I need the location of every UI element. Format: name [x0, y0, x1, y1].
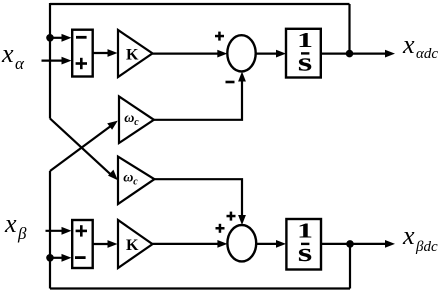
- svg-text:x: x: [1, 39, 14, 68]
- label: output x_beta_dc: [402, 221, 438, 255]
- wire: arrow from top-left node into summing block minus input: [50, 34, 72, 42]
- gain W1 (top omega_c triangle): [119, 96, 154, 143]
- label: minus sign at S1 bottom input: [226, 81, 235, 84]
- svg-text:K: K: [126, 46, 139, 63]
- wire: SB2 output to gain K2: [93, 240, 118, 248]
- wire: top feedback left vertical: [49, 3, 51, 119]
- label: minus sign in SB2: [75, 256, 86, 259]
- wire: W2 output to S2 top (plus input): [154, 179, 246, 225]
- summing block SB1 (top comparator rectangle): [72, 30, 93, 77]
- wire: SB1 output to gain K1: [93, 49, 118, 57]
- wire: bottom feedback horizontal: [50, 287, 350, 289]
- svg-text:x: x: [4, 209, 17, 238]
- svg-text:βdc: βdc: [415, 239, 438, 255]
- svg-text:c: c: [133, 177, 138, 188]
- node: junction dot top-left: [46, 34, 54, 42]
- label: output x_alpha_dc: [402, 30, 438, 62]
- svg-text:ω: ω: [124, 111, 134, 126]
- summing circle S1 (top): [227, 35, 255, 71]
- label: plus sign at S2 top input: [227, 212, 236, 221]
- summing circle S2 (bottom): [227, 225, 256, 261]
- wire: K1 output to summing circle S1, with plus label: [153, 50, 228, 58]
- label: input x_beta: [4, 209, 27, 243]
- wire: x_beta input arrow: [46, 227, 72, 235]
- label: plus sign in SB1: [76, 58, 87, 69]
- label: plus sign at S2 left input: [216, 224, 225, 233]
- integrator I2 (1/s block, bottom): [286, 219, 321, 270]
- wire: I2 output line to x_beta_dc: [321, 240, 395, 248]
- integrator I1 (1/s block, top): [286, 28, 321, 78]
- svg-text:ω: ω: [123, 171, 133, 186]
- label: plus sign at S1 left input: [215, 32, 224, 41]
- wire: cross diagonal from x_beta branch to W1 input: [50, 121, 118, 171]
- wire: K2 output to summing circle S2: [153, 240, 228, 248]
- svg-text:K: K: [126, 237, 139, 254]
- summing block SB2 (bottom comparator rectangle): [72, 220, 93, 268]
- gain K1 (top amplifier triangle): [118, 30, 153, 77]
- svg-text:s: s: [298, 238, 313, 267]
- gain K2 (bottom amplifier triangle): [118, 220, 153, 268]
- node: junction dot bottom-left: [46, 254, 54, 262]
- svg-text:β: β: [17, 224, 27, 243]
- svg-text:αdc: αdc: [416, 46, 438, 62]
- node: junction dot at bottom output: [346, 240, 354, 248]
- gain W2 (bottom omega_c triangle): [118, 157, 154, 204]
- label: input x_alpha: [1, 39, 25, 73]
- svg-text:c: c: [134, 117, 139, 128]
- svg-text:s: s: [298, 48, 313, 77]
- label: minus sign in SB1: [76, 36, 87, 39]
- wire: left feedback vertical (x_beta branch): [49, 171, 51, 289]
- wire: arrow from bottom-left node into SB2 minus input: [50, 254, 72, 262]
- svg-text:x: x: [402, 221, 415, 250]
- label: plus sign in SB2: [76, 225, 87, 236]
- wire: x_alpha input arrow: [42, 57, 72, 65]
- wire: W1 output to S1 bottom (minus input): [154, 72, 246, 120]
- svg-text:x: x: [402, 30, 415, 59]
- node: junction dot at top output: [346, 50, 354, 58]
- wire: S2 output to integrator I2: [256, 240, 286, 248]
- wire: S1 output to integrator I1: [256, 50, 286, 58]
- wire: top feedback horizontal: [50, 3, 350, 5]
- wire: I1 output line to x_alpha_dc: [321, 50, 395, 58]
- wire: top feedback right vertical: [348, 4, 350, 54]
- svg-text:α: α: [15, 54, 25, 73]
- wire: bottom feedback right vertical: [349, 244, 351, 289]
- wire: cross diagonal from x_alpha branch to W2 input: [50, 119, 118, 181]
